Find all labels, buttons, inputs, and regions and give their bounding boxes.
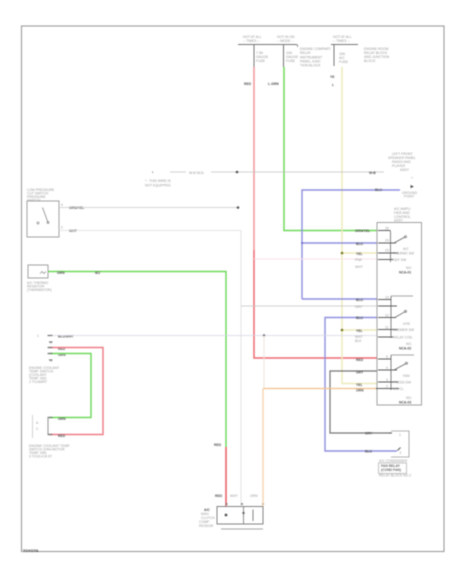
svg-text:RED: RED	[58, 434, 66, 438]
svg-text:-- TIMES --: -- TIMES --	[333, 39, 350, 43]
svg-text:25: 25	[385, 227, 389, 231]
dashed boundary	[32, 415, 34, 438]
svg-text:GRY: GRY	[356, 371, 364, 375]
svg-text:GRY: GRY	[365, 432, 373, 436]
wire red main	[253, 67, 255, 250]
svg-text:ASSY: ASSY	[394, 219, 404, 223]
svg-text:RELAY COIL: RELAY COIL	[393, 336, 413, 340]
svg-text:1: 1	[37, 334, 39, 338]
svg-text:NOT EQUIPPED: NOT EQUIPPED	[145, 184, 171, 188]
svg-text:4: 4	[386, 366, 388, 370]
svg-text:NO.: NO.	[406, 396, 412, 400]
wire blue net 2	[325, 318, 397, 452]
svg-text:BLK: BLK	[355, 339, 362, 343]
group3 internals	[390, 355, 392, 390]
wire yellow branch 2	[342, 329, 377, 331]
svg-text:NO.: NO.	[406, 266, 412, 270]
svg-text:1: 1	[399, 433, 401, 437]
svg-text:IE2: IE2	[95, 271, 100, 275]
junction box text right of F2	[297, 45, 299, 48]
wire green main	[284, 67, 377, 231]
svg-text:C: C	[36, 427, 39, 431]
svg-text:RESSOR: RESSOR	[199, 524, 214, 528]
svg-text:BLOWER SW: BLOWER SW	[393, 328, 415, 332]
svg-text:4: 4	[61, 203, 63, 207]
svg-text:2: 2	[386, 385, 388, 389]
svg-text:YE: YE	[330, 75, 335, 79]
svg-text:MG CL: MG CL	[393, 387, 404, 391]
svg-text:ASSY: ASSY	[400, 168, 410, 172]
pin ticks left connector	[48, 336, 53, 435]
svg-text:RED: RED	[215, 494, 223, 498]
svg-text:POINT: POINT	[404, 195, 414, 199]
svg-text:A/C: A/C	[403, 247, 409, 251]
svg-text:SWITCH: SWITCH	[27, 199, 41, 203]
svg-text:BLU: BLU	[375, 188, 383, 192]
svg-text:L: L	[332, 83, 334, 87]
svg-text:ORN: ORN	[250, 494, 258, 498]
svg-text:FAN: FAN	[403, 374, 410, 378]
fuse rail top	[238, 44, 358, 46]
svg-text:(COND FAN): (COND FAN)	[381, 468, 401, 472]
fuse F1	[253, 45, 255, 67]
wire yellow branch 1	[342, 252, 377, 254]
svg-text:(THERMISTOR): (THERMISTOR)	[27, 288, 52, 292]
wire blue bottom of net1	[302, 298, 377, 300]
svg-text:GRN: GRN	[58, 417, 66, 421]
divider	[243, 507, 245, 525]
compressor box	[217, 507, 263, 525]
svg-text:11: 11	[385, 326, 389, 330]
svg-text:2 T/CAMRY: 2 T/CAMRY	[29, 380, 48, 384]
group2 internals	[390, 296, 392, 338]
junction yellow 2	[341, 329, 344, 332]
svg-text:3 T/CELICA ST: 3 T/CELICA ST	[29, 455, 52, 459]
blue end connector symbol	[411, 185, 414, 188]
svg-text:ORN: ORN	[356, 389, 364, 393]
svg-text:* : THIS WIRE IS: * : THIS WIRE IS	[145, 179, 171, 183]
svg-text:RED: RED	[244, 82, 252, 86]
svg-text:GRN/YEL: GRN/YEL	[355, 229, 370, 233]
wire pink	[254, 258, 377, 260]
junction yellow 1	[341, 252, 344, 255]
junction on faint wire	[263, 334, 265, 336]
svg-text:-- TIMES --: -- TIMES --	[243, 39, 260, 43]
svg-text:W-B: W-B	[369, 171, 376, 175]
svg-text:2: 2	[61, 226, 63, 230]
svg-text:BLU: BLU	[356, 298, 364, 302]
svg-text:BLU: BLU	[365, 450, 373, 454]
junction on line	[236, 171, 239, 174]
svg-text:-- MODE --: -- MODE --	[277, 39, 294, 43]
bottom right connector	[391, 431, 409, 457]
svg-text:*: *	[152, 171, 154, 175]
wire gray to amplifier	[241, 305, 377, 307]
svg-text:NCA-02: NCA-02	[399, 347, 411, 351]
fuse F2	[283, 45, 285, 67]
svg-text:24: 24	[385, 239, 389, 243]
wire yellow main	[342, 67, 377, 384]
svg-text:FUSE: FUSE	[339, 60, 349, 64]
switch inside box1	[43, 208, 49, 223]
svg-text:23: 23	[385, 249, 389, 253]
svg-text:L-GRN: L-GRN	[268, 82, 279, 86]
svg-text:YEL: YEL	[356, 383, 363, 387]
bottom-left component bar	[47, 418, 49, 435]
svg-text:WHT: WHT	[355, 265, 363, 269]
svg-text:TION BLOCK: TION BLOCK	[300, 64, 321, 68]
svg-text:3: 3	[386, 378, 388, 382]
junction blue	[301, 242, 303, 244]
svg-text:TOYOTA: TOYOTA	[23, 549, 39, 553]
svg-text:14: 14	[385, 296, 389, 300]
wire from box1 pin2 (white)	[59, 231, 241, 507]
svg-text:RED: RED	[356, 358, 364, 362]
svg-text:BLU: BLU	[356, 242, 364, 246]
svg-text:A/C CONDENSER: A/C CONDENSER	[379, 459, 408, 463]
svg-text:DEF SW: DEF SW	[393, 258, 407, 262]
fuse F3	[333, 45, 335, 66]
svg-text:YEL: YEL	[356, 252, 363, 256]
wire pale white down	[263, 336, 265, 389]
bottom bracket	[221, 528, 263, 530]
svg-text:HTR: HTR	[403, 322, 411, 326]
svg-text:RED: RED	[214, 443, 222, 447]
A/C amplifier box	[377, 223, 422, 406]
wire green thermo	[48, 272, 226, 448]
svg-text:NCA-03: NCA-03	[399, 401, 411, 405]
wire orange	[263, 388, 377, 390]
svg-text:A: A	[36, 421, 39, 425]
svg-text:BLU: BLU	[356, 316, 364, 320]
svg-text:GRN/YEL: GRN/YEL	[69, 206, 84, 210]
wire blue branch	[302, 242, 377, 244]
svg-text:GRY: GRY	[355, 305, 363, 309]
svg-text:2: 2	[400, 451, 402, 455]
svg-text:+: +	[411, 176, 413, 180]
wire red to compressor	[225, 447, 227, 506]
svg-text:FUSE: FUSE	[256, 59, 266, 63]
svg-text:12: 12	[385, 314, 389, 318]
svg-text:PRESS SW: PRESS SW	[393, 381, 412, 385]
svg-text:5: 5	[386, 355, 388, 359]
svg-text:BLOCK: BLOCK	[364, 59, 376, 63]
svg-text:RELAY BLOCK NO.2: RELAY BLOCK NO.2	[379, 474, 411, 478]
end dot	[237, 206, 240, 209]
svg-text:GRN: GRN	[57, 271, 65, 275]
svg-text:RELAY: RELAY	[300, 51, 312, 55]
svg-text:W-B NCA: W-B NCA	[189, 171, 204, 175]
svg-text:THERMO SW: THERMO SW	[393, 252, 415, 256]
left box 1	[27, 201, 59, 237]
svg-text:FUSE: FUSE	[286, 59, 296, 63]
svg-text:NCA-01: NCA-01	[399, 271, 411, 275]
label on line	[186, 169, 211, 175]
coil dot	[225, 514, 228, 517]
svg-text:WHT: WHT	[230, 494, 238, 498]
wire from box1 pin1	[59, 207, 238, 209]
svg-text:NO.: NO.	[406, 342, 412, 346]
wire blue net 1	[302, 190, 400, 299]
svg-text:PNK: PNK	[355, 258, 363, 262]
line shielded y172	[170, 171, 384, 173]
wire dark gray net	[330, 371, 391, 433]
group1 internals	[390, 231, 392, 262]
svg-text:YEL: YEL	[356, 329, 363, 333]
left box 2	[28, 265, 48, 278]
svg-text:WHT: WHT	[69, 229, 78, 233]
